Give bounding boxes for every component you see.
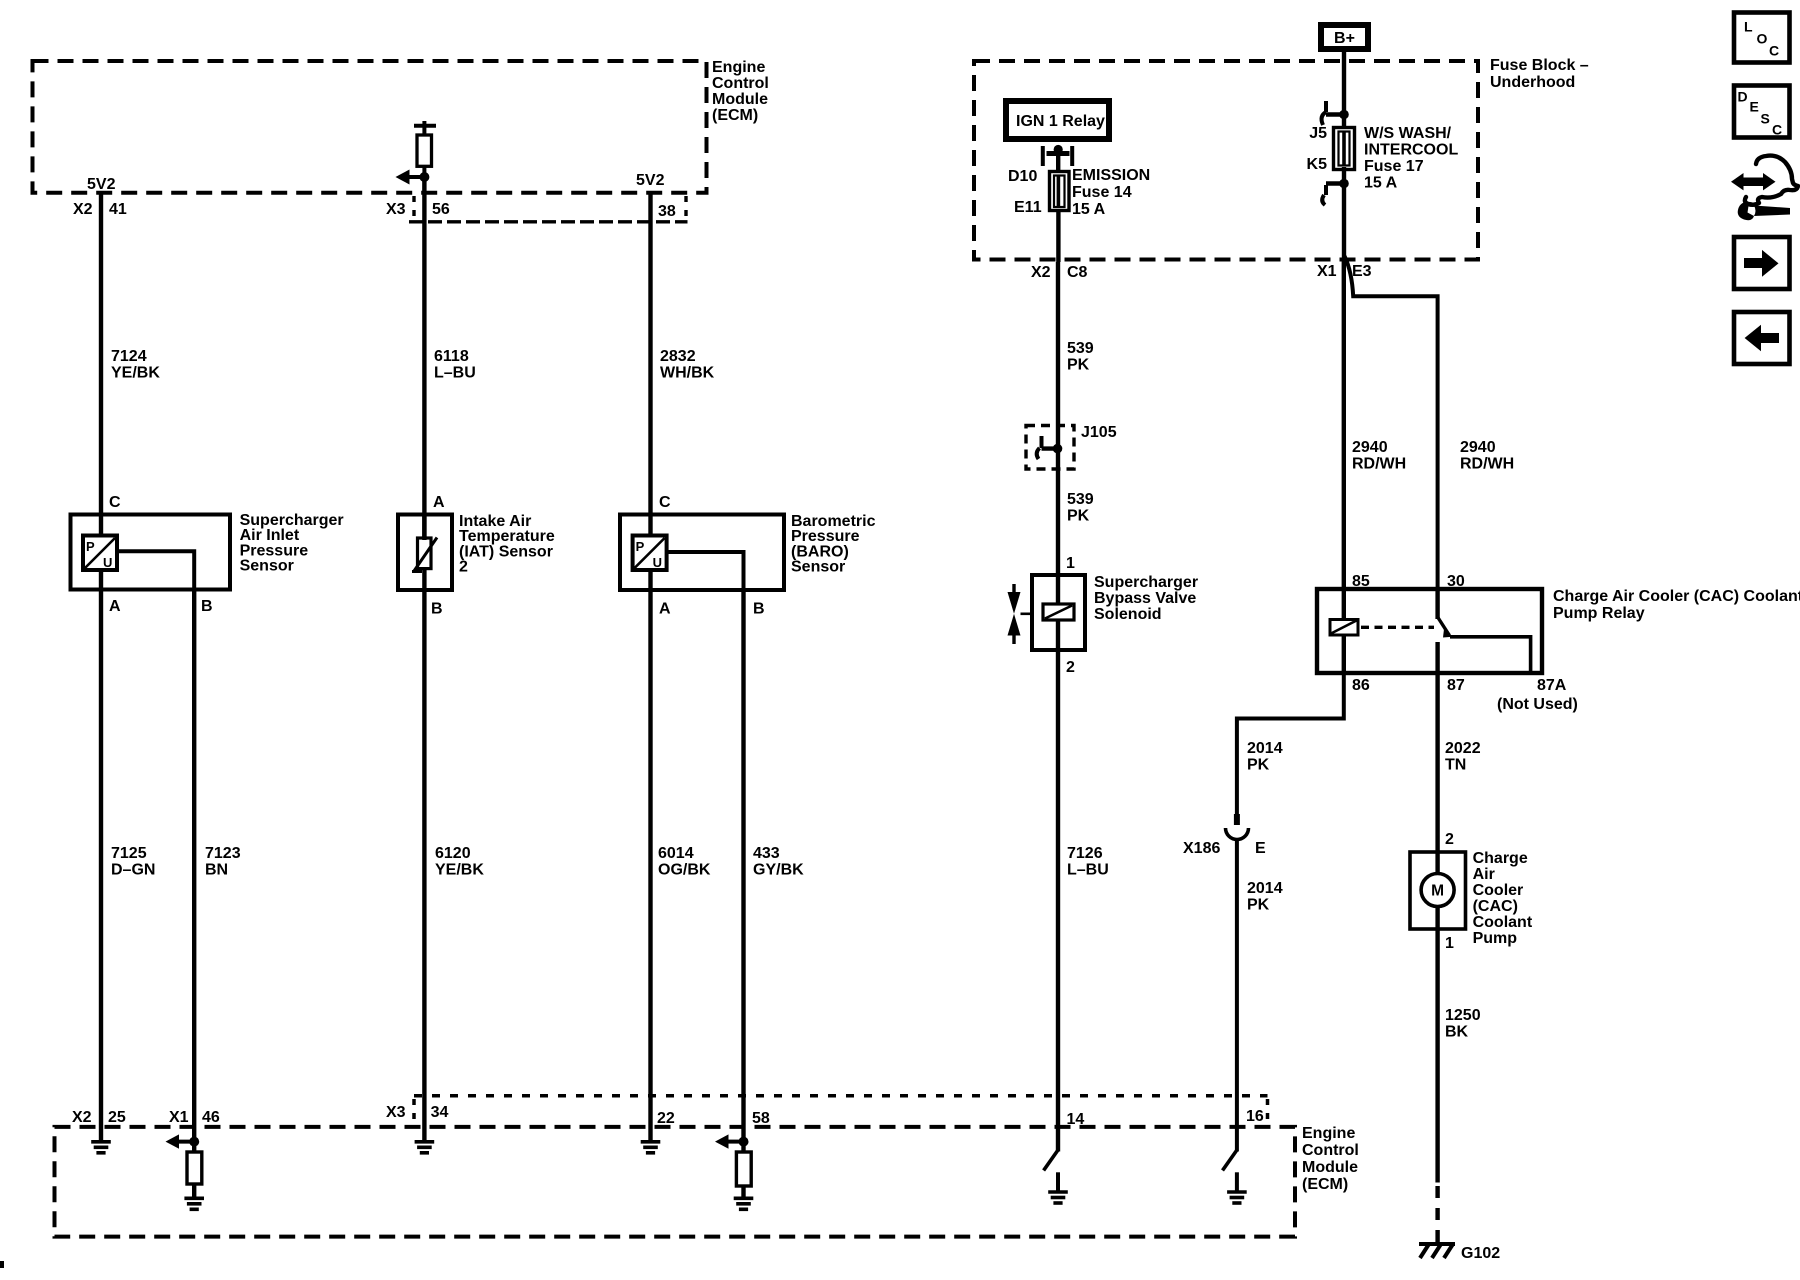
label 7124 YE/BK	[111, 348, 160, 382]
pin X2 C8	[1031, 264, 1088, 281]
IAT label	[459, 513, 555, 576]
pin 87 stub	[1435, 642, 1439, 673]
relay coil-to-switch dashed link	[1361, 626, 1434, 629]
fuse 14 labels	[1008, 168, 1042, 216]
svg-text:Solenoid: Solenoid	[1094, 606, 1162, 623]
svg-text:X2: X2	[72, 1109, 92, 1126]
pump motor M	[1421, 852, 1454, 929]
svg-text:OG/BK: OG/BK	[658, 862, 711, 879]
svg-text:(ECM): (ECM)	[1302, 1176, 1348, 1193]
pin X1 46	[169, 1109, 220, 1126]
svg-text:B+: B+	[1334, 30, 1355, 47]
Supercharger Air Inlet Pressure Sensor box	[71, 515, 231, 590]
svg-text:E11: E11	[1014, 199, 1042, 216]
svg-text:Air: Air	[1473, 866, 1495, 883]
svg-text:(Not Used): (Not Used)	[1497, 696, 1578, 713]
Charge Air Cooler (CAC) Coolant Pump box	[1410, 852, 1466, 929]
label 433 GY/BK	[753, 845, 804, 879]
svg-text:Underhood: Underhood	[1490, 74, 1575, 91]
wire B+ to fuse block	[1342, 52, 1346, 110]
ground below pin46 resistor	[184, 1198, 204, 1209]
dashed wire to G102	[1435, 1186, 1439, 1242]
svg-text:W/S WASH/: W/S WASH/	[1364, 125, 1452, 142]
edge artifact mark	[0, 1261, 4, 1268]
svg-text:C: C	[659, 494, 671, 511]
svg-text:539: 539	[1067, 340, 1094, 357]
svg-text:87A: 87A	[1537, 677, 1567, 694]
label 7123 BN	[205, 845, 241, 879]
DESC icon box	[1734, 86, 1790, 138]
svg-text:87: 87	[1447, 677, 1465, 694]
junction dot fuse17 bottom	[1339, 179, 1349, 189]
svg-text:D: D	[1738, 89, 1748, 105]
svg-text:2: 2	[459, 559, 468, 576]
internal link to pin B (BARO)	[667, 552, 744, 590]
P/U transducer symbol (SC sensor)	[83, 536, 117, 571]
svg-text:C8: C8	[1067, 264, 1088, 281]
Fuse Block - Underhood dashed box	[974, 61, 1478, 260]
svg-text:A: A	[433, 494, 445, 511]
svg-text:P: P	[636, 539, 645, 554]
svg-text:(CAC): (CAC)	[1473, 898, 1518, 915]
svg-text:Pump Relay: Pump Relay	[1553, 605, 1645, 622]
svg-text:Sensor: Sensor	[791, 559, 845, 576]
pin X1 E3	[1317, 263, 1372, 280]
svg-text:B: B	[201, 598, 213, 615]
wire 433 GY/BK	[741, 590, 745, 1142]
relay label	[1553, 588, 1800, 622]
LOC icon box	[1734, 13, 1790, 63]
svg-text:TN: TN	[1445, 757, 1466, 774]
svg-text:PK: PK	[1067, 508, 1090, 525]
Supercharger Bypass Valve Solenoid box	[1032, 575, 1085, 650]
wire branch to pin 30	[1345, 256, 1438, 589]
svg-text:7124: 7124	[111, 348, 147, 365]
wire 2014 PK upper segment	[1237, 673, 1344, 824]
wire into fuse17	[1342, 110, 1346, 130]
svg-text:86: 86	[1352, 677, 1370, 694]
forward arrow icon box	[1734, 237, 1790, 289]
svg-text:46: 46	[202, 1109, 220, 1126]
svg-text:A: A	[109, 598, 121, 615]
junction dot pin 58	[739, 1137, 749, 1147]
svg-text:Bypass Valve: Bypass Valve	[1094, 590, 1196, 607]
J105 splice terminal symbol	[1037, 436, 1058, 459]
solenoid wire through	[1056, 575, 1060, 650]
svg-text:X1: X1	[1317, 263, 1337, 280]
svg-text:O: O	[1757, 31, 1768, 47]
wire 6118 L-BU	[422, 177, 426, 539]
internal link to pin B (SC sensor)	[117, 551, 194, 589]
svg-text:G102: G102	[1461, 1245, 1500, 1262]
svg-text:Cooler: Cooler	[1473, 882, 1524, 899]
Engine Control Module (ECM) top dashed box	[33, 61, 707, 193]
G102 chassis ground	[1419, 1244, 1455, 1258]
svg-text:S: S	[1761, 111, 1770, 127]
svg-text:7125: 7125	[111, 845, 147, 862]
svg-text:539: 539	[1067, 491, 1094, 508]
label 6118 L-BU	[434, 348, 476, 382]
arrow left at pin 58	[715, 1134, 744, 1148]
svg-text:2022: 2022	[1445, 740, 1481, 757]
svg-text:A: A	[659, 601, 671, 618]
IGN1 relay output terminal symbol	[1043, 146, 1072, 171]
svg-text:M: M	[1431, 883, 1444, 900]
diagnostic squiggle icon (double arrow + outline + wrench)	[1731, 156, 1798, 221]
B+ power feed box	[1321, 25, 1368, 49]
svg-text:15 A: 15 A	[1364, 175, 1398, 192]
svg-text:5V2: 5V2	[636, 172, 665, 189]
junction dot pin 46	[189, 1137, 199, 1147]
pin X3 34	[386, 1104, 448, 1121]
label 539 PK upper	[1067, 340, 1094, 374]
wire 6014 OG/BK	[648, 590, 652, 1141]
label 539 PK lower	[1067, 491, 1094, 525]
junction dot fuse17 top	[1339, 110, 1349, 120]
IAT thermistor symbol	[412, 538, 437, 572]
svg-text:L–BU: L–BU	[434, 365, 476, 382]
svg-text:J5: J5	[1309, 125, 1327, 142]
label 1250 BK	[1445, 1007, 1481, 1041]
junction dot on T pin	[1054, 145, 1063, 154]
label 2940 RD/WH (right)	[1460, 439, 1514, 473]
label 6120 YE/BK	[435, 845, 484, 879]
87A path inside relay	[1450, 637, 1531, 673]
label 2832 WH/BK	[660, 348, 715, 382]
ground at pin 22	[641, 1142, 661, 1153]
svg-text:5V2: 5V2	[87, 176, 116, 193]
label 7126 L-BU	[1067, 845, 1109, 879]
svg-text:X2: X2	[1031, 264, 1051, 281]
svg-text:1: 1	[1445, 935, 1454, 952]
svg-text:BN: BN	[205, 862, 228, 879]
svg-text:(IAT) Sensor: (IAT) Sensor	[459, 543, 553, 560]
svg-text:D–GN: D–GN	[111, 862, 155, 879]
svg-text:25: 25	[108, 1109, 126, 1126]
svg-text:Charge Air Cooler (CAC) Coolan: Charge Air Cooler (CAC) Coolant	[1553, 588, 1800, 605]
svg-text:B: B	[753, 601, 765, 618]
svg-text:2: 2	[1066, 659, 1075, 676]
svg-text:X3: X3	[386, 201, 406, 218]
resistor at pin 46	[187, 1142, 202, 1197]
svg-text:16: 16	[1246, 1108, 1264, 1125]
ground at pin 25	[91, 1142, 111, 1153]
svg-text:X186: X186	[1183, 840, 1220, 857]
label 7125 D-GN	[111, 845, 155, 879]
EMISSION Fuse 14 symbol	[1050, 172, 1070, 211]
wire A through P/U (SC sensor)	[99, 570, 103, 590]
svg-text:(ECM): (ECM)	[712, 107, 758, 124]
Engine Control Module (ECM) bottom dashed box	[55, 1127, 1296, 1237]
wire 85 coil to bottom	[1342, 634, 1346, 673]
fuse17 bottom terminal symbol K5	[1322, 167, 1344, 205]
switch to ground at pin 16	[1223, 1150, 1237, 1192]
svg-text:PK: PK	[1247, 757, 1270, 774]
svg-text:U: U	[103, 555, 112, 570]
pump label	[1473, 850, 1533, 947]
Fuse Block label	[1490, 57, 1589, 91]
svg-text:7126: 7126	[1067, 845, 1103, 862]
resistor (IAT pull-up)	[417, 135, 432, 193]
solenoid label	[1094, 574, 1198, 623]
svg-text:BK: BK	[1445, 1024, 1469, 1041]
svg-text:2014: 2014	[1247, 880, 1283, 897]
svg-text:IGN 1 Relay: IGN 1 Relay	[1016, 113, 1105, 130]
svg-text:Module: Module	[1302, 1159, 1358, 1176]
wire 7124 YE/BK	[99, 193, 103, 536]
svg-text:Pump: Pump	[1473, 930, 1518, 947]
fuse17 labels	[1307, 125, 1328, 173]
fuse17 top terminal symbol J5	[1322, 101, 1344, 125]
svg-text:14: 14	[1067, 1111, 1085, 1128]
svg-text:Fuse 17: Fuse 17	[1364, 158, 1424, 175]
BARO label	[791, 513, 876, 576]
wire 7123 BN	[192, 590, 196, 1142]
ground at pin 34	[415, 1142, 435, 1153]
svg-text:Fuse 14: Fuse 14	[1072, 184, 1132, 201]
wire 6120 YE/BK	[422, 590, 426, 1141]
svg-text:433: 433	[753, 845, 780, 862]
wire A through P/U (BARO)	[648, 570, 652, 590]
svg-text:Module: Module	[712, 91, 768, 108]
svg-text:38: 38	[658, 203, 676, 220]
svg-text:2940: 2940	[1460, 439, 1496, 456]
svg-text:C: C	[109, 494, 121, 511]
svg-text:X1: X1	[169, 1109, 189, 1126]
X3 connector dotted box (top)	[409, 196, 688, 222]
ECM bottom label	[1302, 1125, 1359, 1193]
P/U transducer symbol (BARO)	[633, 536, 667, 571]
wire 1250 BK	[1435, 929, 1439, 1183]
Barometric Pressure (BARO) Sensor box	[620, 515, 784, 591]
X186 inline connector symbol	[1226, 814, 1249, 840]
svg-text:J105: J105	[1081, 424, 1117, 441]
svg-text:U: U	[653, 555, 662, 570]
SC sensor label	[240, 512, 344, 575]
Intake Air Temperature (IAT) Sensor box	[398, 515, 452, 591]
svg-text:34: 34	[431, 1104, 449, 1121]
svg-text:PK: PK	[1067, 357, 1090, 374]
svg-text:X2: X2	[73, 201, 93, 218]
svg-text:YE/BK: YE/BK	[435, 862, 484, 879]
junction dot at 5V2/56	[419, 172, 429, 182]
svg-text:D10: D10	[1008, 168, 1037, 185]
svg-text:56: 56	[432, 201, 450, 218]
X186 label	[1183, 840, 1266, 857]
bottom dotted connector box (X3)	[414, 1096, 1268, 1125]
pin X2 25	[72, 1109, 126, 1126]
svg-text:INTERCOOL: INTERCOOL	[1364, 142, 1458, 159]
wire 85 inside relay	[1342, 589, 1346, 620]
wire fuse14 down to X2/C8	[1056, 211, 1060, 263]
ECM top label	[712, 59, 769, 124]
wire 2940 RD/WH (pin 85 branch)	[1342, 258, 1346, 589]
arrow left at pin 46	[166, 1134, 195, 1148]
svg-text:GY/BK: GY/BK	[753, 862, 804, 879]
pin 87A label	[1497, 677, 1578, 713]
svg-text:E3: E3	[1352, 263, 1372, 280]
svg-text:B: B	[431, 601, 443, 618]
wire 2022 TN	[1435, 673, 1439, 852]
svg-text:2940: 2940	[1352, 439, 1388, 456]
svg-text:Sensor: Sensor	[240, 558, 294, 575]
svg-text:EMISSION: EMISSION	[1072, 167, 1150, 184]
svg-text:2: 2	[1445, 831, 1454, 848]
svg-text:X3: X3	[386, 1104, 406, 1121]
svg-text:58: 58	[752, 1110, 770, 1127]
relay switch contact	[1438, 589, 1450, 636]
label 2014 PK lower	[1247, 880, 1283, 914]
svg-text:7123: 7123	[205, 845, 241, 862]
svg-text:1: 1	[1066, 555, 1075, 572]
svg-text:6014: 6014	[658, 845, 694, 862]
svg-text:L–BU: L–BU	[1067, 862, 1109, 879]
svg-text:Charge: Charge	[1473, 850, 1528, 867]
J105 splice dashed box	[1026, 426, 1074, 470]
svg-text:PK: PK	[1247, 897, 1270, 914]
valve symbol (two triangles)	[1008, 592, 1021, 636]
wire 539 PK upper	[1056, 262, 1060, 575]
svg-text:P: P	[86, 539, 95, 554]
wire 2014 PK lower	[1235, 840, 1239, 1152]
svg-text:K5: K5	[1307, 156, 1328, 173]
svg-text:RD/WH: RD/WH	[1460, 456, 1514, 473]
svg-text:Engine: Engine	[712, 59, 765, 76]
svg-text:Fuse Block –: Fuse Block –	[1490, 57, 1589, 74]
wire 2832 WH/BK	[648, 193, 652, 537]
svg-text:E: E	[1255, 840, 1266, 857]
label 2014 PK upper	[1247, 740, 1283, 774]
label 2940 RD/WH (left)	[1352, 439, 1406, 473]
svg-text:WH/BK: WH/BK	[660, 365, 715, 382]
wire 7126 L-BU	[1056, 650, 1060, 1152]
svg-text:1250: 1250	[1445, 1007, 1481, 1024]
relay coil	[1330, 620, 1358, 636]
5V reference tack bar	[414, 121, 436, 135]
svg-text:Control: Control	[712, 75, 769, 92]
svg-text:22: 22	[657, 1110, 675, 1127]
back arrow icon box	[1734, 312, 1790, 364]
svg-text:RD/WH: RD/WH	[1352, 456, 1406, 473]
Charge Air Cooler (CAC) Coolant Pump Relay box	[1317, 589, 1542, 673]
svg-text:Engine: Engine	[1302, 1125, 1355, 1142]
svg-text:C: C	[1769, 43, 1779, 59]
resistor at pin 58	[736, 1142, 751, 1197]
pin X2 41	[73, 201, 127, 218]
junction dot J105	[1053, 444, 1063, 454]
wire fuse17 to X1/E3	[1342, 196, 1346, 258]
IGN 1 Relay box	[1006, 101, 1109, 139]
label 2022 TN	[1445, 740, 1481, 774]
label 6014 OG/BK	[658, 845, 711, 879]
svg-text:YE/BK: YE/BK	[111, 365, 160, 382]
svg-text:2832: 2832	[660, 348, 696, 365]
solenoid coil	[1043, 604, 1074, 620]
svg-text:6120: 6120	[435, 845, 471, 862]
switch to ground at pin 14	[1044, 1150, 1058, 1192]
arrow left (5V2 ref continues)	[396, 170, 425, 185]
svg-text:41: 41	[109, 201, 127, 218]
svg-text:Control: Control	[1302, 1142, 1359, 1159]
svg-text:15 A: 15 A	[1072, 201, 1106, 218]
svg-text:6118: 6118	[434, 348, 469, 365]
svg-text:Supercharger: Supercharger	[1094, 574, 1198, 591]
W/S WASH/INTERCOOL Fuse 17 symbol	[1334, 128, 1355, 170]
svg-text:E: E	[1750, 99, 1759, 115]
pin X3 56	[386, 201, 450, 218]
ground below pin58 resistor	[734, 1198, 754, 1209]
svg-text:L: L	[1744, 19, 1753, 35]
svg-text:C: C	[1772, 122, 1782, 138]
svg-text:Coolant: Coolant	[1473, 914, 1533, 931]
IAT wire through	[422, 515, 426, 591]
wire 7125 D-GN	[99, 590, 103, 1141]
svg-text:2014: 2014	[1247, 740, 1283, 757]
